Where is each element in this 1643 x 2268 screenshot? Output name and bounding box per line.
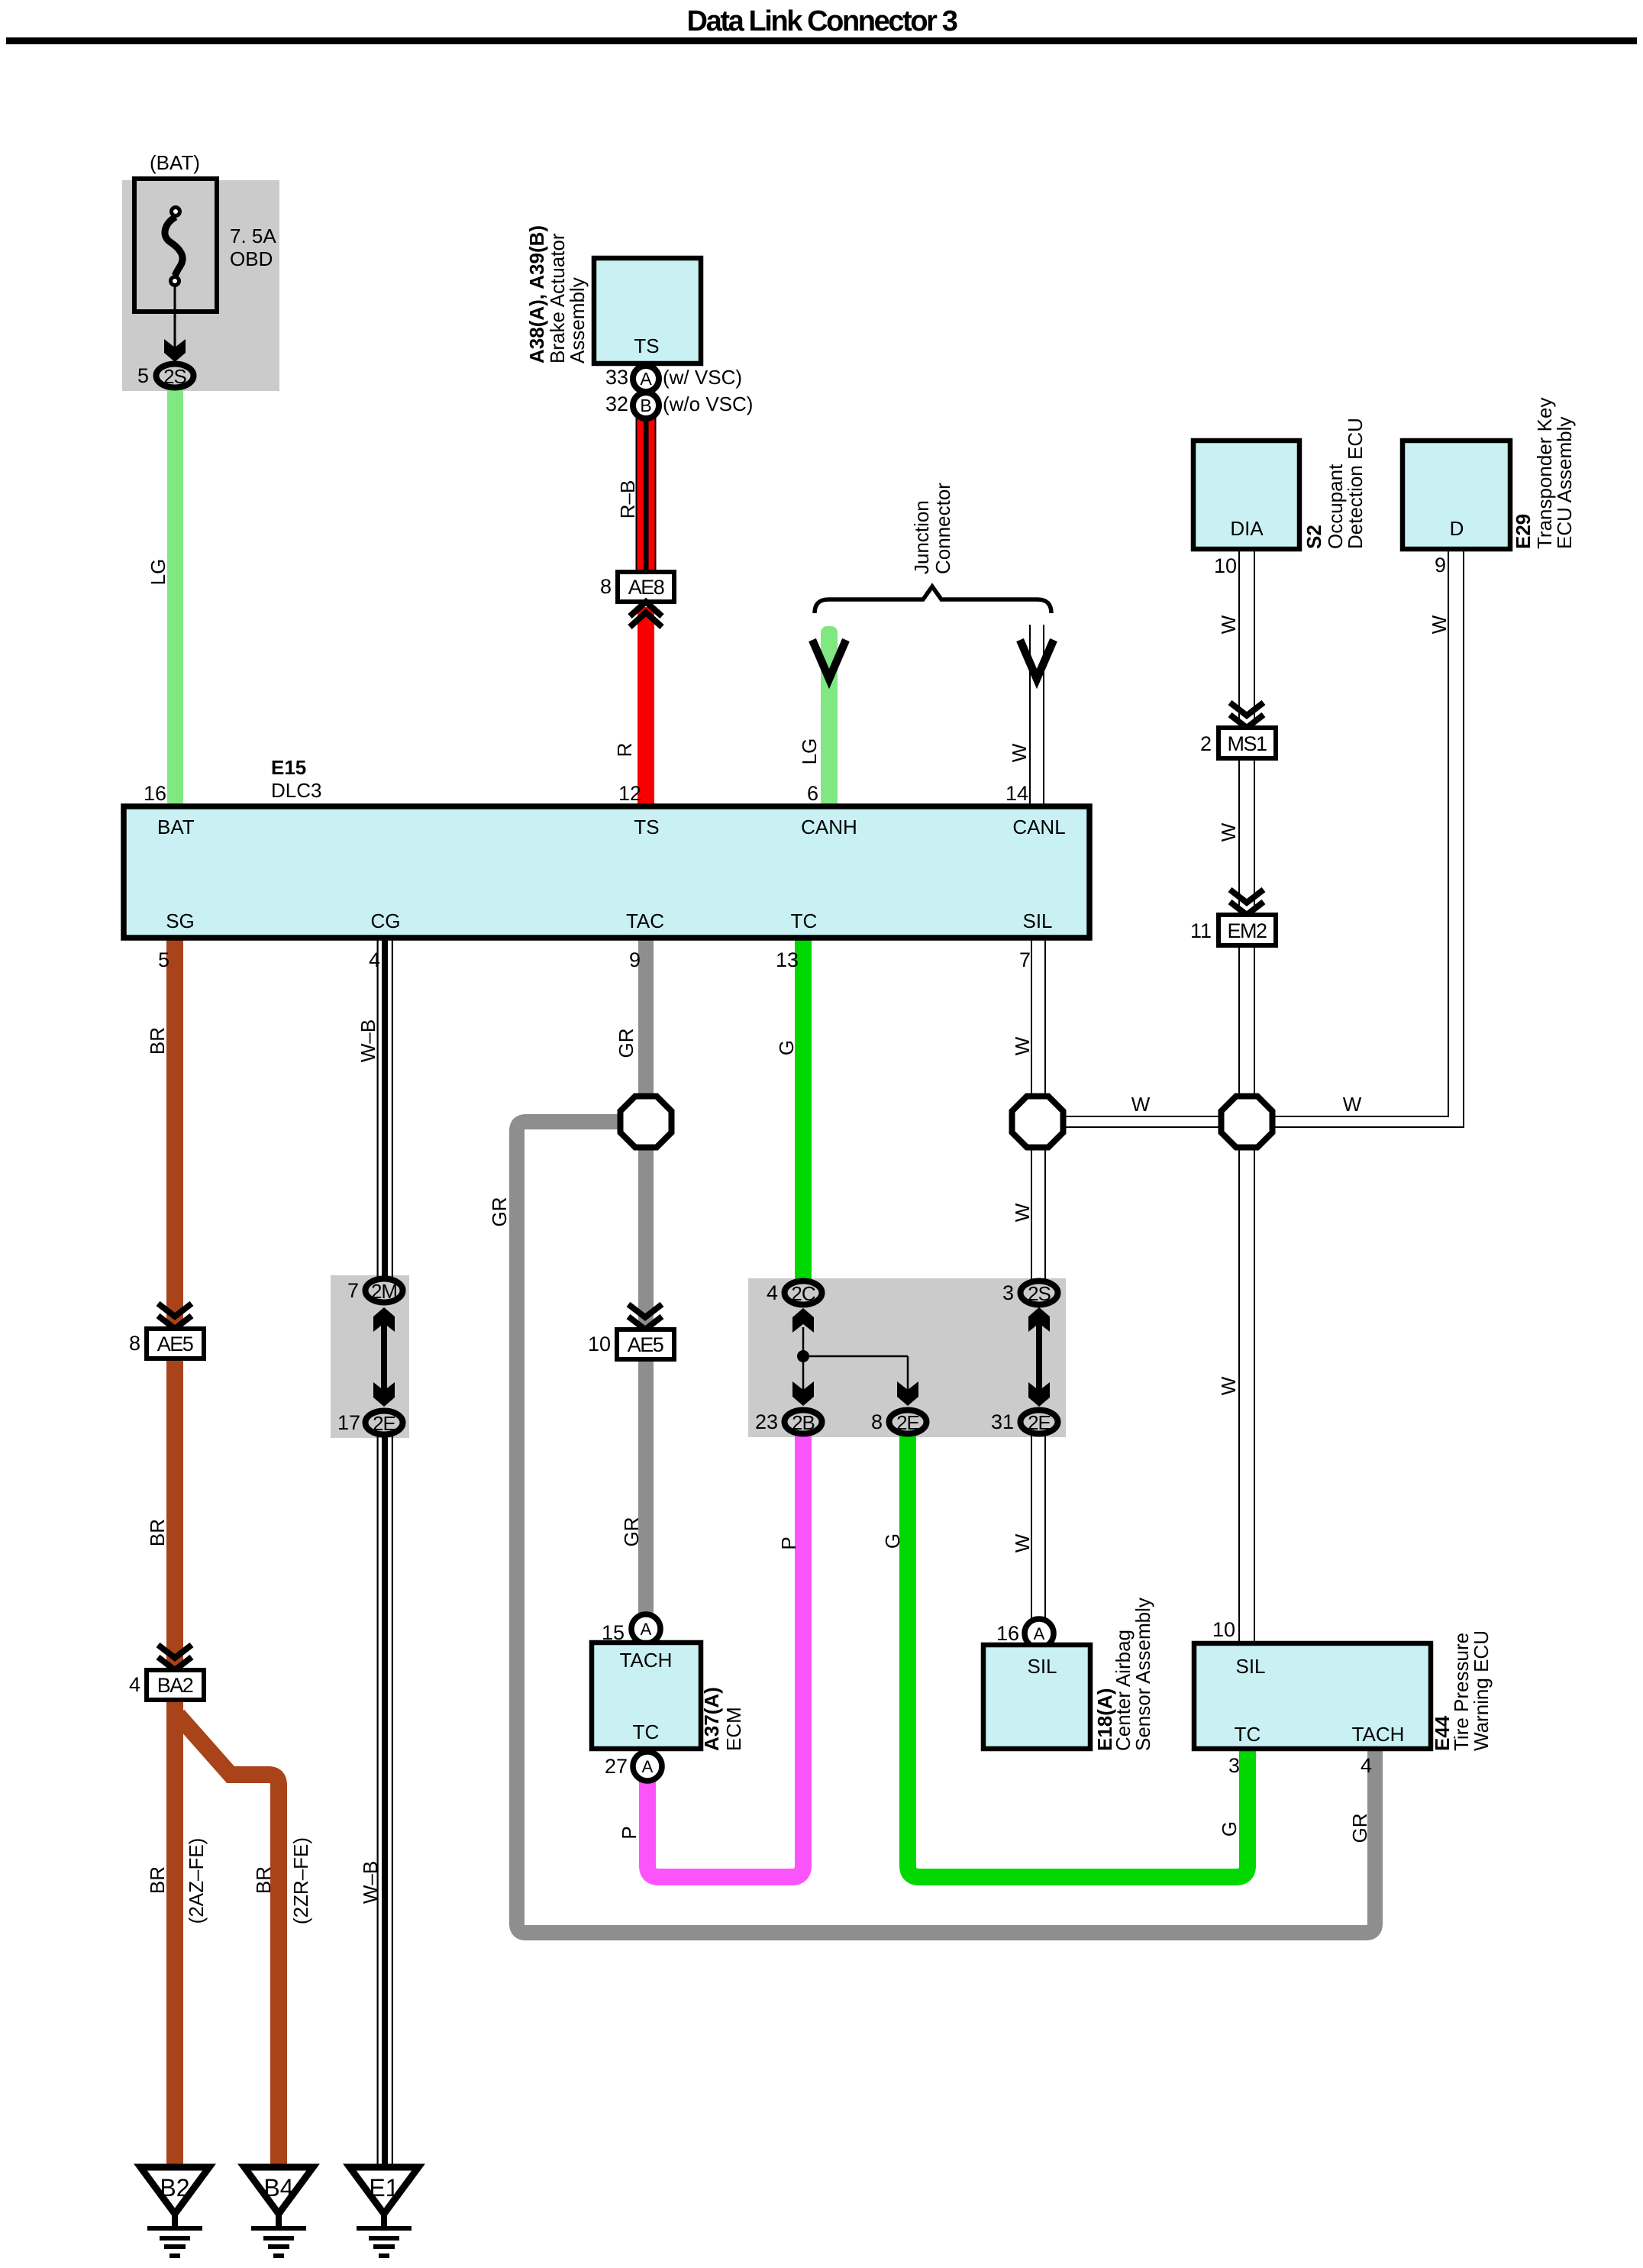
svg-text:P: P — [777, 1536, 800, 1549]
svg-text:BR: BR — [146, 1866, 169, 1894]
transponder key ECU assembly E29 — [1403, 398, 1576, 549]
svg-text:Assembly: Assembly — [566, 277, 589, 363]
svg-text:13: 13 — [776, 948, 799, 971]
connector 23 2B — [755, 1410, 822, 1435]
double arrow between 2S and 2E (31) — [1028, 1307, 1050, 1407]
svg-text:2S: 2S — [163, 365, 186, 388]
svg-text:10: 10 — [588, 1333, 611, 1355]
svg-text:GR: GR — [1348, 1814, 1371, 1843]
svg-text:10: 10 — [1212, 1618, 1235, 1641]
arrow into 2B — [792, 1381, 814, 1406]
svg-text:MS1: MS1 — [1227, 732, 1267, 755]
svg-text:8: 8 — [600, 575, 612, 598]
svg-text:4: 4 — [369, 948, 380, 971]
wire GR loop from octagon junction to E44 TACH pin 4 — [517, 1122, 1375, 1933]
wire W horizontal from octagon junction to E29 riser — [1247, 549, 1464, 1127]
svg-text:E1: E1 — [369, 2174, 399, 2202]
svg-text:G: G — [1218, 1821, 1241, 1837]
svg-text:CANL: CANL — [1012, 816, 1065, 838]
wire W from occupant detection DIA pin 10 to MS1 — [1238, 549, 1255, 730]
svg-text:W: W — [1011, 1203, 1034, 1222]
chevrons down above AE5 right — [628, 1304, 662, 1329]
svg-text:27: 27 — [605, 1755, 628, 1778]
svg-text:TACH: TACH — [620, 1649, 673, 1672]
svg-text:SIL: SIL — [1235, 1655, 1265, 1678]
wire G from 2E to E44 TC pin 3 — [908, 1436, 1248, 1877]
tire pressure warning ECU E44 — [1194, 1630, 1493, 1751]
svg-text:14: 14 — [1005, 782, 1028, 805]
svg-text:16: 16 — [996, 1622, 1019, 1645]
svg-text:GR: GR — [488, 1197, 511, 1227]
svg-text:10: 10 — [1214, 554, 1237, 577]
chevrons down above BA2 — [158, 1645, 192, 1670]
svg-text:12: 12 — [618, 782, 641, 805]
ground E1 — [350, 2167, 418, 2256]
svg-text:AE8: AE8 — [628, 576, 664, 599]
svg-text:A: A — [641, 1620, 652, 1639]
svg-text:(w/ VSC): (w/ VSC) — [663, 366, 742, 389]
svg-text:(2AZ–FE): (2AZ–FE) — [185, 1838, 208, 1924]
wire G from DLC3 TC pin 13 to 2C — [795, 938, 812, 1281]
svg-text:SIL: SIL — [1022, 909, 1052, 932]
chevrons down above AE5 left — [158, 1304, 192, 1329]
center airbag sensor assembly E18(A) — [983, 1598, 1154, 1751]
wire R from AE8 to DLC3 TS pin 12 — [638, 607, 654, 808]
shaded relay block background (BAT fuse) — [122, 180, 279, 391]
DLC3 connector E15 — [124, 756, 1089, 938]
svg-text:(BAT): (BAT) — [150, 151, 200, 174]
svg-text:GR: GR — [615, 1029, 638, 1058]
connector 11 EM2 — [1190, 915, 1276, 945]
svg-text:OBD: OBD — [230, 247, 273, 270]
svg-text:DIA: DIA — [1230, 517, 1264, 540]
svg-text:A37(A): A37(A) — [700, 1687, 723, 1751]
wire P from 2B to ECM TC pin 27 — [647, 1436, 803, 1877]
svg-text:2M: 2M — [371, 1280, 397, 1303]
wire BR branch from BA2 to ground B4 — [178, 1715, 279, 2166]
svg-text:ECM: ECM — [722, 1707, 745, 1751]
svg-text:SG: SG — [166, 909, 195, 932]
svg-text:Sensor Assembly: Sensor Assembly — [1131, 1598, 1154, 1751]
wire W-B from 2E to ground E1 — [377, 1435, 394, 2166]
svg-text:G: G — [881, 1533, 904, 1549]
svg-text:BAT: BAT — [157, 816, 195, 838]
svg-text:W: W — [1217, 1376, 1240, 1395]
svg-text:4: 4 — [767, 1281, 778, 1304]
svg-text:2S: 2S — [1028, 1282, 1051, 1305]
wire GR from AE5 to ECM TACH pin 15 — [638, 1359, 654, 1618]
svg-text:TC: TC — [1235, 1723, 1261, 1746]
svg-text:TS: TS — [634, 816, 659, 838]
pin 27 A circle (ECM TC) — [605, 1752, 662, 1781]
wire R-B from brake actuator B to AE8 — [636, 417, 657, 573]
svg-text:TC: TC — [791, 909, 818, 932]
svg-text:W: W — [1011, 1036, 1034, 1055]
svg-text:W: W — [1131, 1093, 1151, 1116]
svg-text:R: R — [613, 743, 636, 758]
svg-text:2C: 2C — [791, 1282, 815, 1305]
svg-text:8: 8 — [871, 1410, 883, 1433]
svg-text:CANH: CANH — [801, 816, 857, 838]
svg-text:W–B: W–B — [357, 1019, 379, 1062]
connector 8 2E — [871, 1410, 927, 1435]
wire W CANL from junction connector to DLC3 pin 14 — [1029, 625, 1044, 808]
wire BR from BA2 to ground B2 — [166, 1698, 183, 2166]
svg-text:B2: B2 — [160, 2174, 189, 2202]
pin 32 B (w/o VSC) — [605, 393, 754, 418]
svg-text:AE5: AE5 — [628, 1333, 663, 1356]
junction connector block background (2C/2B/2E/2S/2E) — [748, 1278, 1066, 1437]
connector 8 AE8 — [600, 572, 674, 602]
wire BR from AE5 to BA2 — [166, 1358, 183, 1670]
fuse 7.5A OBD — [134, 151, 276, 348]
svg-text:9: 9 — [1435, 554, 1446, 577]
svg-text:W: W — [1343, 1093, 1362, 1116]
wire W from 2E 31 to center airbag sensor SIL pin 16 — [1031, 1435, 1046, 1622]
svg-text:TC: TC — [633, 1720, 660, 1743]
title Data Link Connector 3 — [6, 5, 1637, 44]
svg-text:4: 4 — [129, 1673, 140, 1696]
svg-text:ECU Assembly: ECU Assembly — [1553, 417, 1576, 549]
svg-text:BA2: BA2 — [157, 1674, 193, 1697]
arrow into 2C — [792, 1308, 814, 1333]
ground B4 — [244, 2167, 313, 2256]
wire GR from octagon junction to AE5 — [638, 1145, 654, 1330]
svg-text:GR: GR — [620, 1517, 643, 1547]
svg-text:6: 6 — [807, 782, 818, 805]
svg-text:5: 5 — [158, 948, 169, 971]
svg-text:W–B: W–B — [359, 1861, 382, 1904]
svg-text:LG: LG — [147, 559, 169, 586]
octagon junction on DIA W line — [1222, 1097, 1273, 1148]
svg-text:W: W — [1217, 615, 1240, 634]
svg-text:A: A — [642, 1757, 654, 1776]
svg-text:16: 16 — [144, 782, 166, 805]
svg-text:7: 7 — [1019, 948, 1031, 971]
svg-text:2E: 2E — [373, 1412, 395, 1435]
svg-text:BR: BR — [146, 1027, 169, 1055]
svg-text:Junction: Junction — [910, 500, 933, 574]
ECM A37(A) — [592, 1643, 745, 1751]
svg-text:E15: E15 — [271, 756, 306, 779]
svg-text:S2: S2 — [1302, 525, 1325, 549]
svg-text:Detection ECU: Detection ECU — [1344, 418, 1367, 549]
connector 7 2M — [347, 1279, 403, 1304]
pin 16 A circle (E18 SIL) — [996, 1619, 1054, 1648]
svg-text:11: 11 — [1190, 919, 1212, 942]
connector 2 MS1 — [1200, 728, 1276, 758]
svg-text:32: 32 — [605, 393, 628, 415]
connector 31 2E — [991, 1410, 1058, 1435]
wire W SIL from DLC3 pin 7 to 2S — [1031, 938, 1046, 1281]
svg-text:Connector: Connector — [931, 483, 954, 574]
svg-text:(w/o VSC): (w/o VSC) — [663, 393, 753, 415]
svg-text:5: 5 — [137, 364, 149, 387]
connector 3 2S — [1002, 1281, 1058, 1306]
junction block background (2M/2E) — [331, 1275, 409, 1438]
female terminal arrow on CANL — [1020, 640, 1054, 679]
connector 8 AE5 — [129, 1329, 204, 1359]
wire W from MS1 to EM2 — [1238, 758, 1255, 917]
svg-text:17: 17 — [337, 1411, 360, 1434]
svg-text:CG: CG — [371, 909, 401, 932]
wire GR from DLC3 TAC pin 9 to octagon junction — [638, 938, 654, 1098]
junction node dot — [797, 1350, 809, 1362]
svg-text:A38(A), A39(B): A38(A), A39(B) — [525, 225, 548, 363]
svg-text:A: A — [1034, 1624, 1045, 1643]
svg-text:W: W — [1011, 1533, 1034, 1552]
svg-text:BR: BR — [252, 1866, 275, 1894]
svg-text:TACH: TACH — [1352, 1723, 1405, 1746]
label BR lower right with (2ZR-FE) — [252, 1837, 312, 1924]
brake actuator assembly A38(A) A39(B) — [525, 225, 701, 363]
chevrons down above MS1 — [1230, 703, 1264, 728]
internal wiring of junction connector with node — [803, 1327, 908, 1390]
octagon junction on SIL W line — [1012, 1097, 1064, 1148]
svg-text:7. 5A: 7. 5A — [230, 225, 276, 247]
svg-text:R–B: R–B — [616, 480, 639, 519]
svg-text:BR: BR — [146, 1519, 169, 1546]
svg-text:4: 4 — [1361, 1754, 1372, 1777]
svg-text:W: W — [1428, 615, 1451, 634]
svg-text:SIL: SIL — [1027, 1655, 1057, 1678]
arrow into connector 2S of fuse — [164, 339, 186, 362]
svg-text:2E: 2E — [1028, 1411, 1051, 1434]
wire BR from DLC3 SG pin 5 to AE5 — [166, 938, 183, 1329]
svg-text:DLC3: DLC3 — [271, 779, 321, 802]
svg-text:2: 2 — [1200, 732, 1212, 755]
wire LG from fuse 2S to DLC3 BAT pin 16 — [167, 386, 183, 808]
pin 15 A circle (ECM TACH) — [602, 1614, 660, 1644]
wire LG CANH from junction connector to DLC3 pin 6 — [821, 626, 838, 808]
wire W-B from DLC3 CG pin 4 to 2M — [377, 938, 394, 1278]
female terminal arrow on CANH — [812, 640, 846, 679]
connector 17 2E — [337, 1411, 403, 1436]
svg-text:2B: 2B — [792, 1411, 815, 1434]
ground B2 — [140, 2167, 209, 2256]
svg-text:W: W — [1008, 743, 1031, 762]
svg-text:EM2: EM2 — [1227, 919, 1267, 942]
svg-text:Data Link Connector 3: Data Link Connector 3 — [687, 5, 957, 37]
svg-text:B: B — [640, 396, 651, 415]
connector 5 2S (fuse output) — [137, 364, 194, 389]
svg-text:3: 3 — [1002, 1281, 1014, 1304]
svg-text:9: 9 — [629, 948, 641, 971]
svg-text:LG: LG — [798, 738, 821, 765]
svg-text:G: G — [775, 1040, 798, 1055]
chevrons up below AE8 — [630, 602, 662, 627]
occupant detection ECU S2 — [1193, 418, 1367, 549]
svg-text:8: 8 — [129, 1332, 140, 1355]
connector 10 AE5 — [588, 1329, 674, 1359]
junction connector brace — [815, 483, 1051, 613]
svg-text:B4: B4 — [263, 2174, 293, 2202]
svg-text:A: A — [640, 369, 652, 389]
svg-text:E29: E29 — [1512, 514, 1535, 549]
svg-text:33: 33 — [605, 366, 628, 389]
wire W horizontal between octagon junctions — [1038, 1116, 1247, 1128]
pin 33 A (w/ VSC) — [605, 366, 742, 392]
svg-text:AE5: AE5 — [157, 1333, 193, 1355]
svg-text:Warning ECU: Warning ECU — [1470, 1630, 1493, 1751]
svg-text:TAC: TAC — [626, 909, 664, 932]
svg-text:7: 7 — [347, 1279, 359, 1302]
svg-text:D: D — [1450, 517, 1464, 540]
svg-text:W: W — [1217, 822, 1240, 842]
svg-text:P: P — [618, 1826, 641, 1839]
svg-text:23: 23 — [755, 1410, 778, 1433]
svg-text:2E: 2E — [896, 1411, 919, 1434]
svg-text:TS: TS — [634, 334, 659, 357]
svg-text:3: 3 — [1228, 1754, 1240, 1777]
svg-text:31: 31 — [991, 1410, 1014, 1433]
label BR lower left with (2AZ-FE) — [146, 1838, 208, 1924]
double arrow between 2M and 2E — [373, 1307, 395, 1407]
wire W from EM2 to octagon junction and to E44 SIL pin 10 — [1238, 945, 1255, 1643]
arrow into 2E (8) — [897, 1381, 918, 1406]
connector 4 BA2 — [129, 1670, 204, 1700]
svg-text:(2ZR–FE): (2ZR–FE) — [289, 1837, 312, 1924]
chevrons down above EM2 — [1230, 890, 1264, 915]
octagon junction on TAC GR line — [621, 1097, 672, 1148]
connector 4 2C — [767, 1281, 822, 1306]
